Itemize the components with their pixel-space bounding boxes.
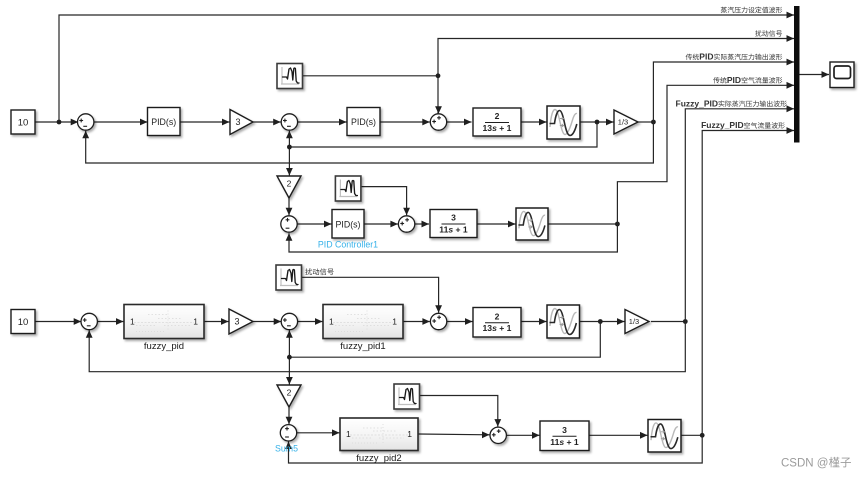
label 蒸汽压力设定值波形 (mux row1) <box>721 7 727 13</box>
wire: noise2 output right and down into Sum3b top <box>301 277 439 313</box>
sum Sum5mid (middle row, adds noise) <box>398 216 414 232</box>
PID controller block PID(s) (outer) <box>148 108 181 136</box>
PID controller block PID(s) (inner) <box>347 108 380 136</box>
sum Sum4 (middle row) <box>281 216 297 232</box>
svg-text:3: 3 <box>235 117 240 127</box>
svg-text:1: 1 <box>193 317 198 327</box>
svg-text:1: 1 <box>407 429 412 439</box>
svg-text:1: 1 <box>130 317 135 327</box>
wire: outer feedback junction B down-left-up into Sum1 <box>86 122 654 163</box>
wire: PID Controller to Gain 3 <box>180 121 230 123</box>
noise source block (bottom) <box>394 384 420 409</box>
fuzzy_pid subsystem block <box>124 305 204 339</box>
wire: Constant 10b to Sum1b <box>35 321 81 323</box>
wire: TF to Transport Delay3 <box>589 434 648 436</box>
sum Sum5 (highlighted name) <box>280 425 296 441</box>
svg-text:Sum5: Sum5 <box>275 444 298 454</box>
wire: Transfer Fcn to Transport Delay1 <box>477 223 515 225</box>
svg-text:Fuzzy_PID: Fuzzy_PID <box>676 98 719 108</box>
svg-text:3: 3 <box>234 317 239 327</box>
svg-text:fuzzy_pid: fuzzy_pid <box>144 341 184 352</box>
svg-text:3: 3 <box>451 213 456 223</box>
svg-text:1: 1 <box>346 429 351 439</box>
sum Sum3 (plant input + disturbance) <box>430 114 446 130</box>
wire: junction C down-left-up feedback into Sum4 bottom <box>289 224 617 252</box>
transfer function block 2/(13s+1) (bottom) <box>473 308 521 338</box>
svg-text:CSDN @: CSDN @ <box>781 458 828 470</box>
gain block 3 (top) <box>230 110 253 135</box>
label 扰动信号 (next to noise2) <box>305 268 312 275</box>
gain block 3 (bottom) <box>229 309 253 334</box>
wire: Transport Delay1 out to junction C <box>548 223 617 225</box>
svg-text:2: 2 <box>287 179 292 189</box>
svg-text:PID(s): PID(s) <box>151 117 176 127</box>
wire: noise1 branch down into Sum3 top <box>437 76 439 114</box>
wire: Transport Delay2 to Gain 1/3b with junction D <box>580 321 625 323</box>
wire: Sum2 bottom vertical to Gain2 (two arrowheads, junction) <box>288 131 290 147</box>
svg-text:3: 3 <box>562 425 567 435</box>
svg-text:PID: PID <box>699 52 713 62</box>
wire: PID Controller1 to Sum5mid <box>364 223 398 225</box>
sum Sum2 <box>281 114 297 130</box>
svg-text:10: 10 <box>18 317 29 328</box>
transport delay block (top) <box>547 106 580 139</box>
gain block 1/3 (top) <box>614 110 638 134</box>
svg-text:2: 2 <box>495 311 500 321</box>
svg-text:PID(s): PID(s) <box>336 219 361 229</box>
transport delay block (bottom fuzzy row) <box>547 305 580 338</box>
wire: inner feedback from junction A down to Sum2/Gain2 vertical <box>289 122 597 147</box>
sum Sum1b (fuzzy outer) <box>81 313 97 329</box>
wire: Gain 3b to Sum2b <box>253 321 281 323</box>
wire: Sum5mid to Transfer Fcn 3/(11s+1) <box>415 223 429 225</box>
wire: Gain 3 to Sum2 <box>253 121 281 123</box>
wire: junction F up to Mux row6 <box>702 131 794 436</box>
constant block "10" (bottom) <box>11 310 35 334</box>
wire: junction C up and over to Mux row4 <box>617 85 794 224</box>
svg-text:13s + 1: 13s + 1 <box>483 123 512 133</box>
wire: Transport Delay to Gain 1/3 with junction A <box>580 121 614 123</box>
svg-text:Fuzzy_PID: Fuzzy_PID <box>701 120 744 130</box>
wire: Sum2b to fuzzy_pid1 <box>298 321 323 323</box>
wire: PID Controller2 to Sum3 <box>380 121 430 123</box>
constant block "10" (top) <box>11 110 35 134</box>
sum Sum2b <box>281 313 297 329</box>
wire: setpoint branch up to Mux row1 <box>59 15 794 122</box>
wire: feedback junction F down-left-up into Sum5 bottom <box>289 435 703 463</box>
fuzzy_pid2 subsystem block <box>340 418 418 451</box>
wire: fuzzy_pid2 to Sum6 <box>418 433 490 436</box>
svg-text:1/3: 1/3 <box>618 118 628 127</box>
svg-text:1: 1 <box>329 317 334 327</box>
noise source block (middle) <box>335 176 361 201</box>
wire: Sum1b to fuzzy_pid <box>97 321 123 323</box>
gain block 2 (down, top section) <box>277 176 301 198</box>
transfer function block 3/(11s+1) (bottom) <box>540 421 589 451</box>
wire: Transport Delay3 out to junction F <box>681 434 702 436</box>
label 传统PID实际蒸汽压力输出波形 (mux row3) <box>686 54 692 60</box>
label 传统PID空气流量波形 (mux row4) <box>713 77 719 83</box>
wire: Sum2 to PID Controller2 <box>298 121 347 123</box>
label 扰动信号 (mux row2) <box>755 30 761 36</box>
wire: Mux to Scope <box>800 74 830 76</box>
wire: noise4 output right and down into Sum6 top <box>419 396 498 427</box>
wire: inner feedback junction D down to Sum2b/Gain2b vertical <box>289 322 600 358</box>
sum Sum6 <box>490 427 506 443</box>
fuzzy_pid1 subsystem block <box>323 305 403 339</box>
wire: noise3 output right and down into Sum5mid top <box>360 187 407 216</box>
wire: Gain2b apex down into Sum5 top <box>288 407 290 424</box>
svg-text:10: 10 <box>18 118 29 129</box>
transport delay block (middle) <box>516 208 548 240</box>
PID controller1 block PID(s) <box>332 210 364 239</box>
scope block <box>830 62 854 88</box>
wire: junction B up to Mux row3 <box>653 62 794 122</box>
wire: Gain 1/3 output to junction B <box>638 121 653 123</box>
svg-text:PID(s): PID(s) <box>351 117 376 127</box>
svg-text:13s + 1: 13s + 1 <box>483 323 512 333</box>
wire: Gain 1/3b output to junction E <box>651 321 685 323</box>
wire: Sum3b to Transfer Fcn 2/(13s+1)b <box>447 321 473 323</box>
wire: Constant 10 to Sum1 with branch junction <box>35 121 78 123</box>
noise source block (top disturbance) <box>277 64 303 89</box>
transfer function block 2/(13s+1) (top) <box>473 108 521 136</box>
noise source block (fuzzy disturbance) <box>276 265 302 290</box>
wire: Gain2 apex down into Sum4 top <box>288 198 290 215</box>
wire: Sum2b bottom vertical to Gain2b (junction) <box>288 330 290 357</box>
wire: fuzzy_pid to Gain 3b <box>204 321 229 323</box>
svg-text:2: 2 <box>287 388 292 398</box>
svg-text:fuzzy_pid2: fuzzy_pid2 <box>356 453 401 464</box>
wire: Sum1 to PID Controller <box>94 121 148 123</box>
svg-text:PID Controller1: PID Controller1 <box>318 240 378 250</box>
wire: Transfer Fcn to Transport Delay <box>521 121 547 123</box>
svg-text:2: 2 <box>495 111 500 121</box>
wire: outer feedback junction E down-left-up into Sum1b <box>89 322 685 372</box>
wire: Sum5 to fuzzy_pid2 <box>297 432 340 434</box>
svg-text:PID: PID <box>727 75 741 85</box>
wire: Sum6 to Transfer Fcn 3/(11s+1)b <box>506 434 539 436</box>
transport delay block (bottom-most) <box>648 420 681 453</box>
svg-text:fuzzy_pid1: fuzzy_pid1 <box>340 341 385 352</box>
svg-text:11s + 1: 11s + 1 <box>550 437 579 447</box>
gain block 2 (down, bottom section) <box>277 385 301 407</box>
svg-text:1: 1 <box>392 317 397 327</box>
sum Sum3b <box>430 313 446 329</box>
svg-text:1/3: 1/3 <box>629 317 639 326</box>
wire: Sum4 to PID Controller1 <box>297 223 331 225</box>
wire: noise1 output to junction and Mux row2 <box>303 39 795 76</box>
sum Sum1 <box>78 114 94 130</box>
wire: TFb to Transport Delay2 <box>521 321 547 323</box>
transfer function block 3/(11s+1) (middle) <box>430 210 477 238</box>
mux bar <box>794 6 800 143</box>
wire: junction E up to Mux row5 <box>685 109 794 322</box>
wire: fuzzy_pid1 to Sum3b <box>403 321 430 323</box>
svg-text:11s + 1: 11s + 1 <box>439 225 468 235</box>
wire: Sum3 to Transfer Fcn 2/(13s+1) <box>447 121 472 123</box>
gain block 1/3 (bottom) <box>625 310 649 334</box>
